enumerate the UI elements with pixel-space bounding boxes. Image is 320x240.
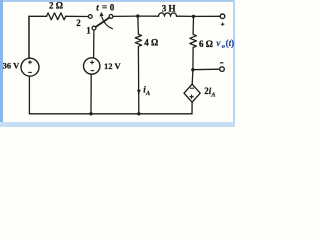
wire node A to inductor <box>138 15 159 17</box>
wire dependent source to bottom rail <box>191 102 193 114</box>
switch arm from pivot to contact 1 <box>96 18 110 28</box>
current arrow iA head <box>137 90 141 95</box>
svg-text:0: 0 <box>110 2 115 12</box>
wire 6Ω to node C <box>192 50 194 70</box>
wire node C to output terminal minus <box>193 68 220 71</box>
svg-text:3 H: 3 H <box>162 3 176 13</box>
switch pivot terminal circle <box>109 15 113 19</box>
wire node B down to 6Ω resistor <box>192 16 194 33</box>
wire 4Ω to bottom junction <box>137 48 139 114</box>
svg-text:1: 1 <box>86 26 91 36</box>
switch motion arrowhead <box>99 12 103 17</box>
wire top-left corner from left rail to 2Ω resistor <box>29 16 47 58</box>
12V polarity minus <box>91 70 95 72</box>
svg-text:4 Ω: 4 Ω <box>144 38 158 48</box>
bottom rail wire <box>29 113 192 115</box>
inductor 3H coil <box>159 13 177 16</box>
wire node A down to 4Ω resistor <box>137 16 140 33</box>
12V polarity plus <box>90 60 94 64</box>
wire inductor to node B <box>177 15 194 17</box>
voltage source 36V circle <box>21 58 39 76</box>
voltage source 12V circle <box>84 58 100 74</box>
wire node B to output terminal plus <box>194 15 221 17</box>
output plus sign <box>221 23 224 26</box>
wire node C down to dependent source <box>191 70 194 85</box>
svg-text:=: = <box>102 2 107 12</box>
resistor 6Ω zigzag <box>190 33 197 50</box>
wire switch pivot to node A <box>113 15 138 17</box>
output minus sign <box>220 62 224 64</box>
switch contact 1 terminal circle <box>92 26 96 30</box>
output terminal minus circle <box>220 67 225 72</box>
dependent source 2iA diamond <box>184 84 200 102</box>
output terminal plus circle <box>220 14 225 19</box>
left rail wire down into 36V source <box>28 16 30 58</box>
wire 2Ω to switch contact 2 <box>66 15 89 17</box>
node B junction dot <box>192 15 195 18</box>
bottom junction dot 4Ω branch <box>137 112 140 115</box>
switch contact 2 terminal circle <box>88 15 92 19</box>
dependent source polarity plus <box>189 95 193 99</box>
36V polarity plus <box>28 60 32 64</box>
switch motion arrow arc <box>102 17 113 29</box>
dependent source polarity minus <box>190 87 194 89</box>
resistor 2Ω zigzag <box>47 13 66 20</box>
bottom junction dot 12V branch <box>89 112 92 115</box>
svg-text:36 V: 36 V <box>3 60 20 70</box>
wire 12V source to bottom junction <box>90 74 92 114</box>
svg-text:(t): (t) <box>226 38 235 48</box>
node C junction dot <box>191 68 194 71</box>
wire contact 1 down to 12V source <box>93 30 95 58</box>
svg-text:6 Ω: 6 Ω <box>199 39 213 49</box>
36V polarity minus <box>28 71 32 73</box>
wire 36V source to bottom rail <box>28 76 30 114</box>
svg-text:12 V: 12 V <box>104 61 121 71</box>
node A junction dot <box>136 14 139 17</box>
svg-text:2: 2 <box>76 18 81 28</box>
resistor 4Ω zigzag <box>135 34 141 48</box>
svg-text:2 Ω: 2 Ω <box>49 1 63 11</box>
